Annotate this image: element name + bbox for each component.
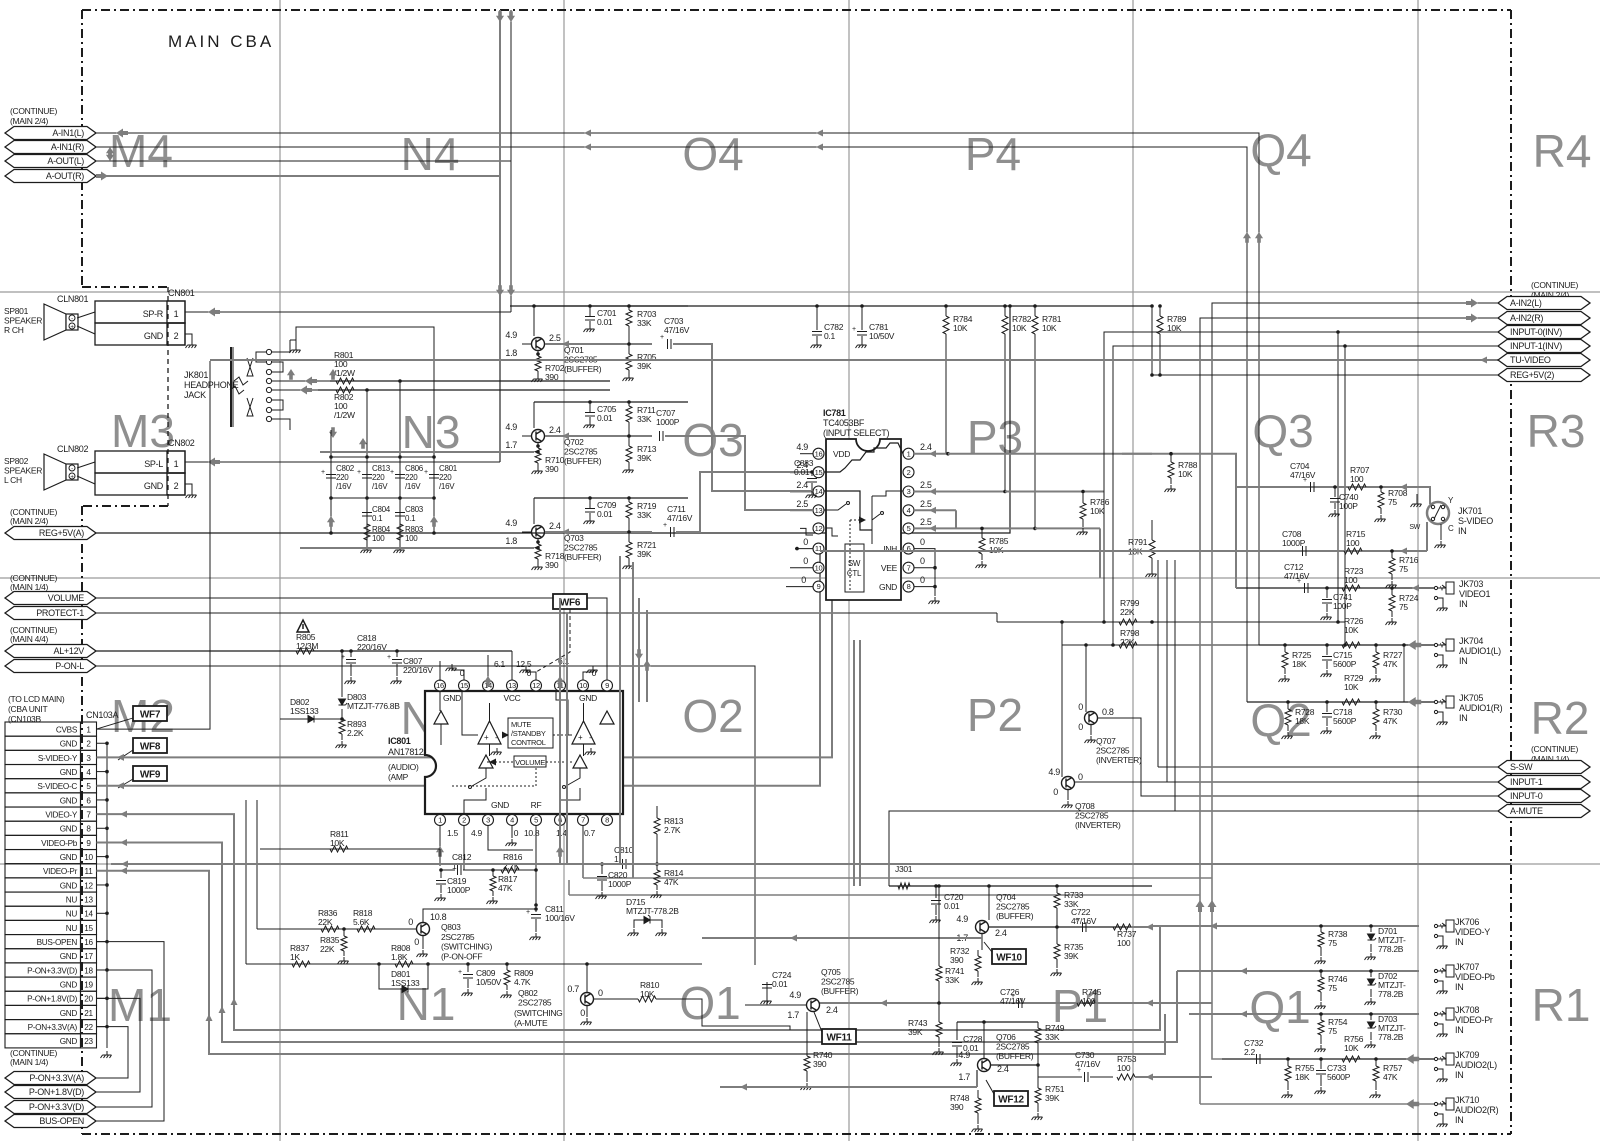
wire C703 to IC781 pin14 bbox=[675, 344, 826, 491]
wire audio1R row bbox=[1247, 701, 1434, 703]
IC801 internal amps bbox=[478, 721, 501, 744]
svg-text:(MAIN 1/4): (MAIN 1/4) bbox=[10, 1057, 49, 1067]
wire INPUT-1(INV) branch bbox=[1344, 346, 1346, 645]
capacitor C712 bbox=[1305, 583, 1309, 593]
svg-text:47K: 47K bbox=[1383, 1072, 1398, 1082]
svg-text:4.9: 4.9 bbox=[956, 914, 968, 924]
svg-text:8: 8 bbox=[907, 582, 911, 591]
svg-text:(CONTINUE): (CONTINUE) bbox=[1531, 280, 1579, 290]
svg-text:1000P: 1000P bbox=[656, 417, 680, 427]
svg-text:778.2B: 778.2B bbox=[1378, 944, 1404, 954]
wf6 box bbox=[553, 594, 587, 609]
svg-text:39K: 39K bbox=[1064, 951, 1079, 961]
flag A-MUTE bbox=[1498, 805, 1590, 818]
svg-text:/16V: /16V bbox=[336, 482, 352, 491]
resistor R707 bbox=[1348, 484, 1366, 490]
wire A-IN2(R) bbox=[1200, 318, 1498, 560]
resistor R723 bbox=[1342, 585, 1360, 591]
vertical bus pair through IC801 area bbox=[619, 556, 621, 864]
svg-text:10K: 10K bbox=[1344, 1043, 1359, 1053]
svg-text:(BUFFER): (BUFFER) bbox=[564, 552, 602, 562]
svg-text:INPUT-0(INV): INPUT-0(INV) bbox=[1510, 327, 1562, 337]
svg-text:GND: GND bbox=[491, 800, 509, 810]
arrow audio1R bbox=[1408, 697, 1421, 707]
IC801 pin 6 bbox=[555, 815, 566, 826]
svg-text:39K: 39K bbox=[637, 549, 652, 559]
grid line vertical 5 bbox=[1417, 0, 1419, 1141]
IC781 pin 11 bbox=[813, 543, 824, 554]
svg-text:V: V bbox=[1440, 970, 1444, 976]
IC781 pin 1 bbox=[903, 448, 914, 459]
svg-text:IN: IN bbox=[1458, 526, 1466, 536]
IC801 pin 5 bbox=[531, 815, 542, 826]
svg-text:CVBS: CVBS bbox=[56, 726, 78, 735]
svg-text:JK709: JK709 bbox=[1455, 1050, 1479, 1060]
wire bank to reg5 bbox=[330, 498, 332, 533]
svg-text:(AMP: (AMP bbox=[388, 772, 409, 782]
board border bottom bbox=[82, 1133, 1511, 1135]
svg-text:JK801: JK801 bbox=[184, 370, 208, 380]
svg-text:17: 17 bbox=[84, 952, 93, 961]
svg-text:10K: 10K bbox=[953, 323, 968, 333]
resistor R809 bbox=[506, 964, 508, 970]
wire REG+5V(2) bbox=[1152, 374, 1498, 376]
arrows top stubs bbox=[496, 11, 504, 22]
IC801 switches bbox=[472, 768, 486, 786]
svg-text:13: 13 bbox=[84, 896, 93, 905]
resistor R724 bbox=[1391, 588, 1393, 595]
IC781 pin 16 bbox=[813, 448, 824, 459]
svg-text:1: 1 bbox=[907, 449, 911, 458]
svg-text:Q802: Q802 bbox=[518, 988, 538, 998]
svg-text:P-ON+3.3V(D): P-ON+3.3V(D) bbox=[29, 1102, 84, 1112]
svg-text:10K: 10K bbox=[640, 989, 655, 999]
IC801 pin 8 bbox=[602, 815, 613, 826]
svg-text:4.9: 4.9 bbox=[796, 442, 808, 452]
flag S-SW bbox=[1498, 761, 1590, 774]
resistor R746 bbox=[1320, 971, 1322, 977]
svg-text:O1: O1 bbox=[679, 977, 740, 1029]
svg-text:47K: 47K bbox=[664, 877, 679, 887]
svg-text:VIDEO-Y: VIDEO-Y bbox=[1455, 927, 1490, 937]
wf9 box bbox=[133, 766, 167, 781]
svg-text:C813: C813 bbox=[372, 464, 391, 473]
wire pin16 bbox=[439, 661, 441, 681]
resistor R784 bbox=[945, 306, 947, 316]
wire CLN802 to CN802 bbox=[77, 462, 95, 468]
wire collector Q702 bbox=[545, 435, 652, 437]
svg-text:10K: 10K bbox=[1344, 682, 1359, 692]
svg-text:0.1: 0.1 bbox=[405, 514, 416, 523]
wire VIDEO-Pr bbox=[97, 871, 1166, 1054]
svg-text:18: 18 bbox=[84, 966, 93, 975]
flag A-IN1(L) bbox=[5, 127, 96, 140]
svg-text:390: 390 bbox=[950, 1102, 964, 1112]
capacitor C732 bbox=[1257, 1054, 1261, 1064]
svg-text:R CH: R CH bbox=[4, 325, 24, 335]
wire collector Q701 bbox=[545, 343, 652, 345]
svg-text:100/16V: 100/16V bbox=[545, 913, 575, 923]
IC801 pin 2 bbox=[459, 815, 470, 826]
svg-text:4.9: 4.9 bbox=[505, 330, 517, 340]
svg-text:1SS133: 1SS133 bbox=[391, 978, 420, 988]
flag VOLUME bbox=[5, 592, 96, 605]
transistor Q803 bbox=[417, 923, 430, 936]
resistor R802 bbox=[336, 387, 354, 393]
svg-text:C806: C806 bbox=[405, 464, 424, 473]
svg-text:JACK: JACK bbox=[184, 390, 206, 400]
wire Q706 collector bbox=[991, 1064, 1038, 1066]
wire R798 row bbox=[1062, 644, 1345, 646]
svg-text:O4: O4 bbox=[682, 128, 743, 180]
resistor R749 bbox=[1037, 1022, 1039, 1028]
svg-text:MTZJT-776.8B: MTZJT-776.8B bbox=[347, 701, 400, 711]
capacitor C741 bbox=[1326, 588, 1328, 598]
svg-text:5: 5 bbox=[907, 524, 911, 533]
svg-text:Q705: Q705 bbox=[821, 967, 841, 977]
svg-text:VOLUME: VOLUME bbox=[515, 758, 545, 767]
svg-text:/16V: /16V bbox=[405, 482, 421, 491]
capacitor C803 bbox=[399, 498, 401, 546]
svg-text:JK705: JK705 bbox=[1459, 693, 1483, 703]
resistor R745 bbox=[1077, 1000, 1095, 1006]
svg-text:100: 100 bbox=[372, 534, 385, 543]
wire collector Q703 bbox=[545, 531, 652, 533]
svg-text:10K: 10K bbox=[330, 838, 345, 848]
svg-text:2: 2 bbox=[462, 816, 466, 825]
svg-text:NU: NU bbox=[66, 924, 78, 933]
svg-text:47K: 47K bbox=[498, 883, 513, 893]
svg-text:2SC2785: 2SC2785 bbox=[1096, 746, 1130, 756]
capacitor C730 bbox=[1037, 1065, 1039, 1077]
svg-text:10.8: 10.8 bbox=[430, 912, 447, 922]
svg-text:Q4: Q4 bbox=[1250, 124, 1311, 176]
svg-text:SPEAKER: SPEAKER bbox=[4, 466, 42, 476]
IC781 pin 2 bbox=[903, 467, 914, 478]
resistor R728 bbox=[1287, 702, 1289, 709]
svg-text:R2: R2 bbox=[1531, 692, 1590, 744]
svg-text:INH: INH bbox=[883, 544, 897, 554]
svg-text:0: 0 bbox=[1078, 702, 1083, 712]
wire S-SW riser bbox=[1157, 560, 1159, 767]
zener D703 bbox=[1370, 1014, 1372, 1020]
svg-text:(BUFFER): (BUFFER) bbox=[996, 911, 1034, 921]
wire TU-VIDEO bbox=[210, 359, 1498, 361]
capacitor C707 bbox=[660, 431, 664, 441]
svg-text:TU-VIDEO: TU-VIDEO bbox=[1510, 355, 1551, 365]
svg-text:AL+12V: AL+12V bbox=[54, 646, 85, 656]
IC781 internal switches bbox=[826, 443, 903, 472]
svg-text:+: + bbox=[357, 469, 361, 476]
wire riser main row bbox=[245, 800, 247, 964]
wire A-MUTE bbox=[889, 811, 1498, 886]
svg-text:GND: GND bbox=[60, 740, 78, 749]
svg-text:1: 1 bbox=[452, 861, 457, 871]
resistor R741 bbox=[938, 886, 940, 966]
svg-text:220: 220 bbox=[439, 473, 452, 482]
svg-text:A-IN1(L): A-IN1(L) bbox=[52, 128, 84, 138]
wire bank verticals bbox=[330, 430, 332, 457]
svg-text:10.8: 10.8 bbox=[524, 828, 540, 838]
svg-text:IN: IN bbox=[1455, 1025, 1463, 1035]
svg-text:5: 5 bbox=[86, 782, 91, 791]
svg-text:2.5: 2.5 bbox=[920, 480, 932, 490]
wire PROTECT-1 to R799 bbox=[996, 613, 998, 622]
svg-text:REG+5V(A): REG+5V(A) bbox=[39, 528, 84, 538]
svg-text:VIDEO-Pb: VIDEO-Pb bbox=[1455, 972, 1495, 982]
flag P-ON+3.3V(D) bbox=[5, 1101, 96, 1114]
grid line horizontal 2 bbox=[0, 577, 1600, 579]
svg-text:C804: C804 bbox=[372, 505, 391, 514]
svg-text:WF10: WF10 bbox=[996, 953, 1022, 964]
svg-text:IN: IN bbox=[1459, 656, 1467, 666]
resistor R740 bbox=[806, 1012, 808, 1056]
wire S-VIDEO-Y bbox=[97, 525, 833, 757]
wire REG+5V(A) bbox=[96, 306, 1010, 533]
svg-text:+: + bbox=[484, 733, 489, 742]
wire IC781 pins 6 7 8 gnd bbox=[914, 549, 935, 587]
svg-text:2.4: 2.4 bbox=[549, 425, 561, 435]
svg-text:(P-ON-OFF: (P-ON-OFF bbox=[441, 951, 482, 961]
resistor R782 bbox=[1004, 306, 1006, 316]
flag PROTECT-1 bbox=[5, 607, 96, 620]
svg-text:NU: NU bbox=[66, 910, 78, 919]
svg-text:GND: GND bbox=[443, 693, 461, 703]
svg-text:CN801: CN801 bbox=[168, 288, 195, 298]
wire A-IN1(L) bbox=[96, 133, 1259, 645]
wire pin3 down bbox=[488, 825, 533, 850]
wire P-ON33D pin18 bbox=[96, 970, 152, 1107]
wire top rail P1 bbox=[889, 885, 1152, 887]
svg-text:1K: 1K bbox=[290, 952, 300, 962]
svg-text:75: 75 bbox=[1388, 497, 1397, 507]
svg-text:220/16V: 220/16V bbox=[357, 642, 387, 652]
wire AL+12V bbox=[96, 650, 512, 652]
svg-text:CONTROL: CONTROL bbox=[511, 738, 546, 747]
svg-text:33K: 33K bbox=[637, 510, 652, 520]
resistor R788 bbox=[1170, 454, 1172, 462]
capacitor C711 bbox=[671, 527, 675, 537]
svg-text:1.5: 1.5 bbox=[447, 828, 458, 838]
svg-text:C803: C803 bbox=[405, 505, 424, 514]
svg-text:0.01: 0.01 bbox=[944, 901, 960, 911]
svg-text:SPEAKER: SPEAKER bbox=[4, 316, 42, 326]
rca jack JK704 bbox=[1434, 639, 1454, 661]
capacitor C703 bbox=[668, 339, 672, 349]
wire INPUT-1(INV) bbox=[1113, 346, 1498, 645]
resistor R811 bbox=[260, 848, 440, 850]
svg-text:1000P: 1000P bbox=[1282, 538, 1306, 548]
svg-text:P3: P3 bbox=[967, 411, 1023, 463]
capacitor C724 bbox=[766, 982, 768, 1005]
svg-text:5.6K: 5.6K bbox=[353, 917, 370, 927]
wire P-ON-L bbox=[96, 666, 755, 965]
wire Q706 vertical bbox=[983, 1022, 985, 1058]
svg-text:0.01: 0.01 bbox=[772, 979, 788, 989]
resistor R804 bbox=[364, 524, 370, 540]
svg-text:0: 0 bbox=[414, 937, 419, 947]
svg-text:13: 13 bbox=[508, 681, 516, 690]
svg-text:39K: 39K bbox=[637, 453, 652, 463]
wire A-OUT(R) bbox=[96, 175, 500, 177]
speaker SP802 bbox=[44, 454, 66, 490]
wire INPUT-0(INV) branch bbox=[1337, 332, 1339, 622]
resistor R732 bbox=[977, 950, 979, 956]
svg-text:18K: 18K bbox=[1292, 659, 1307, 669]
wire Q706 base feed bbox=[720, 1086, 977, 1088]
svg-text:GND: GND bbox=[879, 582, 897, 592]
wire jack loop bbox=[296, 327, 434, 457]
svg-text:2.4: 2.4 bbox=[796, 480, 808, 490]
wire pin13 vcc bbox=[511, 651, 513, 680]
svg-text:2.7K: 2.7K bbox=[503, 861, 520, 871]
cap bank bottom rail bbox=[331, 497, 434, 499]
svg-text:0.01: 0.01 bbox=[597, 413, 613, 423]
svg-text:390: 390 bbox=[545, 464, 559, 474]
IC801 pin stubs top bbox=[439, 690, 441, 692]
svg-text:2: 2 bbox=[86, 740, 91, 749]
svg-text:Q1: Q1 bbox=[1249, 981, 1310, 1033]
svg-text:11: 11 bbox=[85, 867, 94, 876]
transistor Q707 inverter bbox=[1085, 712, 1098, 725]
svg-text:IC801: IC801 bbox=[388, 736, 411, 746]
wire pin7 down bbox=[582, 825, 584, 878]
svg-text:100: 100 bbox=[1350, 474, 1364, 484]
wire A-IN1(R) bbox=[96, 147, 1247, 702]
wire pin12 hook bbox=[526, 666, 536, 680]
svg-text:GND: GND bbox=[60, 952, 78, 961]
svg-text:22K: 22K bbox=[320, 944, 335, 954]
svg-text:WF6: WF6 bbox=[560, 598, 581, 609]
svg-text:JK708: JK708 bbox=[1455, 1005, 1479, 1015]
svg-text:100: 100 bbox=[1117, 938, 1131, 948]
svg-text:33K: 33K bbox=[945, 975, 960, 985]
svg-text:47K: 47K bbox=[1383, 659, 1398, 669]
resistor R755 bbox=[1287, 1059, 1289, 1066]
svg-text:1.8: 1.8 bbox=[505, 536, 517, 546]
svg-text:+: + bbox=[578, 733, 583, 742]
resistor R836 bbox=[321, 926, 339, 932]
resistor R808 bbox=[395, 961, 413, 967]
IC801 volume box bbox=[514, 756, 546, 767]
svg-text:4.9: 4.9 bbox=[471, 828, 482, 838]
svg-text:10K: 10K bbox=[1344, 625, 1359, 635]
wire pin9 bbox=[606, 598, 608, 680]
svg-text:S-VIDEO-C: S-VIDEO-C bbox=[37, 782, 77, 791]
svg-text:12: 12 bbox=[815, 524, 823, 533]
svg-text:INPUT-1(INV): INPUT-1(INV) bbox=[1510, 341, 1562, 351]
svg-text:A-IN2(L): A-IN2(L) bbox=[1510, 298, 1542, 308]
svg-text:(BUFFER): (BUFFER) bbox=[564, 456, 602, 466]
svg-text:0.7: 0.7 bbox=[584, 828, 595, 838]
svg-text:1.7: 1.7 bbox=[505, 440, 517, 450]
svg-text:3: 3 bbox=[486, 816, 490, 825]
wire pin11 bbox=[559, 640, 561, 680]
zener D701 bbox=[1370, 926, 1372, 932]
svg-text:N3: N3 bbox=[402, 406, 461, 458]
board border right bbox=[1510, 10, 1512, 1134]
svg-text:CLN802: CLN802 bbox=[57, 444, 89, 454]
svg-text:0: 0 bbox=[801, 575, 806, 585]
capacitor C726 bbox=[1019, 998, 1023, 1008]
wire rail Q703 bbox=[533, 498, 535, 524]
svg-text:33K: 33K bbox=[637, 414, 652, 424]
svg-text:2SC2785: 2SC2785 bbox=[821, 977, 855, 987]
flag BUS-OPEN bbox=[5, 1115, 96, 1128]
svg-text:21: 21 bbox=[84, 1009, 93, 1018]
resistor R757 bbox=[1375, 1059, 1377, 1066]
svg-text:VIDEO-Pr: VIDEO-Pr bbox=[43, 867, 78, 876]
IC781 pin 14 bbox=[813, 486, 824, 497]
svg-text:8: 8 bbox=[86, 825, 91, 834]
capacitor C804 bbox=[366, 498, 368, 546]
flag INPUT-0(INV) bbox=[1498, 326, 1590, 339]
svg-text:JK701: JK701 bbox=[1458, 506, 1482, 516]
s-video jack JK701 bbox=[1427, 502, 1449, 524]
svg-text:VIDEO-Pb: VIDEO-Pb bbox=[41, 839, 78, 848]
resistor R814 bbox=[656, 864, 658, 870]
IC781 dashed control lines bbox=[849, 520, 851, 592]
gnd JK801 bbox=[290, 340, 296, 346]
svg-text:16: 16 bbox=[84, 938, 93, 947]
resistor R718 emitter bbox=[537, 539, 539, 544]
svg-text:47/16V: 47/16V bbox=[1290, 470, 1316, 480]
wire VOLUME bbox=[96, 598, 607, 680]
svg-text:+: + bbox=[321, 469, 325, 476]
svg-text:2.5: 2.5 bbox=[796, 499, 808, 509]
svg-text:4.7K: 4.7K bbox=[514, 977, 531, 987]
svg-text:BUS-OPEN: BUS-OPEN bbox=[39, 1116, 84, 1126]
svg-text:47K: 47K bbox=[1383, 716, 1398, 726]
transistor Q708 inverter bbox=[1062, 777, 1075, 790]
svg-text:20: 20 bbox=[84, 995, 93, 1004]
svg-text:1: 1 bbox=[438, 816, 442, 825]
gnd CN802 pin2 bbox=[185, 484, 192, 491]
svg-text:P2: P2 bbox=[967, 689, 1023, 741]
svg-text:(MAIN 2/4): (MAIN 2/4) bbox=[10, 116, 49, 126]
transistor Q701 bbox=[532, 338, 545, 351]
wf11 box bbox=[822, 1029, 856, 1044]
resistor R756 bbox=[1342, 1056, 1360, 1062]
wire cap bank top rail bbox=[331, 456, 434, 458]
svg-text:A-OUT(R): A-OUT(R) bbox=[46, 171, 84, 181]
wires JK801 to net bbox=[256, 352, 266, 362]
resistor R733 bbox=[1056, 886, 1058, 893]
svg-text:CN802: CN802 bbox=[168, 438, 195, 448]
wire to S-video Y row bbox=[1122, 454, 1410, 487]
IC781 SW CTL box bbox=[845, 544, 864, 592]
svg-text:Q704: Q704 bbox=[996, 892, 1016, 902]
wire A-IN2(L) bbox=[1212, 303, 1498, 551]
resistor R702 emitter bbox=[537, 351, 539, 356]
svg-text:WF12: WF12 bbox=[998, 1095, 1024, 1106]
svg-text:P-ON+1.8V(D): P-ON+1.8V(D) bbox=[27, 995, 77, 1004]
capacitor C802 bbox=[330, 457, 332, 498]
svg-text:1000P: 1000P bbox=[608, 879, 632, 889]
svg-text:19: 19 bbox=[84, 981, 93, 990]
svg-text:V: V bbox=[1440, 1103, 1444, 1109]
svg-text:13: 13 bbox=[815, 506, 823, 515]
svg-text:P-ON+1.8V(D): P-ON+1.8V(D) bbox=[29, 1087, 84, 1097]
svg-text:2.5: 2.5 bbox=[920, 499, 932, 509]
svg-text:47/16V: 47/16V bbox=[1071, 916, 1097, 926]
svg-text:0.1: 0.1 bbox=[824, 331, 835, 341]
svg-text:9: 9 bbox=[86, 839, 91, 848]
svg-text:0: 0 bbox=[1053, 787, 1058, 797]
wire pin2 down bbox=[463, 825, 465, 870]
wire video-pb row jk707 bbox=[1177, 970, 1419, 972]
svg-text:75: 75 bbox=[1328, 938, 1337, 948]
